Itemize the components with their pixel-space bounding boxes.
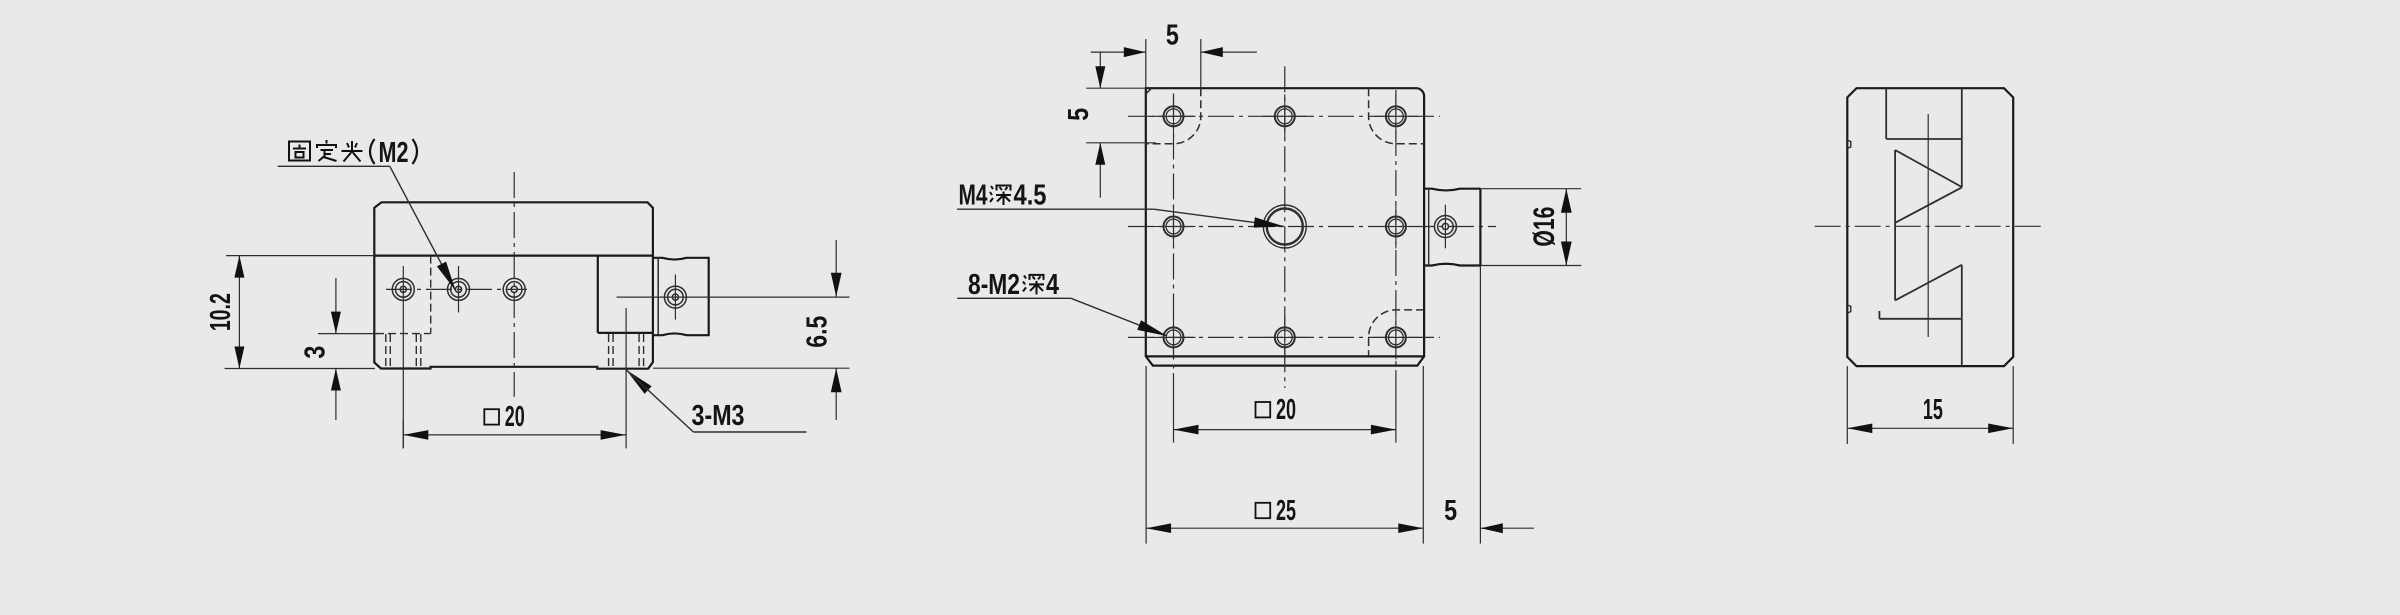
label text 8-M2深4 [968,268,1059,301]
knob collar line [657,258,659,335]
hole 1 vertical crosshair / extension line [402,266,404,448]
svg-text:20: 20 [1276,392,1296,425]
label 8-M2深4 underline [957,297,1071,299]
knob tab set screw hole [1434,216,1456,238]
right bearing block left edge [597,256,599,333]
dim 15 left extension line [1846,366,1848,444]
dim 15 line [1847,424,2013,434]
side view top slot right edge [1961,88,1963,187]
svg-text:3-M3: 3-M3 [692,399,745,432]
dim square25 line [1146,523,1423,533]
row 1 centerline [1128,115,1440,117]
clamp screw hole 3 [503,278,525,300]
dim square20 (top view) left extension [1173,373,1175,443]
label 8-M2深4 leader [1071,298,1167,336]
right bearing block step line [598,332,653,334]
8-M2 hole r1c3 [1374,94,1418,138]
center M4 hole [1263,205,1306,248]
svg-text:3: 3 [298,346,331,359]
clamp screw hole 2 (固定夹 M2) [448,278,470,300]
8-M2 hole r1c2 [1263,94,1307,138]
8-M2 hole r2c3 [1374,205,1418,249]
label text 3-M3 [692,399,745,432]
label leader 3-M3 underline [693,431,806,433]
svg-text:4.5: 4.5 [1014,178,1047,211]
dim 5 bottom-right line [1481,523,1534,533]
label leader 固定夹(M2) diagonal [390,166,456,290]
stage body outline (front view) [374,202,653,368]
8-M2 hole r1c1 [1152,94,1196,138]
dim text 10.2 [204,293,237,331]
svg-text:Ø16: Ø16 [1527,207,1561,247]
side view lower slot bottom lip [1879,311,1961,319]
svg-text:8-M2: 8-M2 [968,268,1020,301]
side view dovetail lower diagonal [1895,265,1962,301]
plate top-left corner chamfer tick [1146,88,1152,94]
column 3 centerline [1395,90,1397,373]
hidden clamp outline (dashed) right edge [430,256,432,334]
dim Ø16 line [1561,189,1572,266]
dim 3 extension line [318,333,378,335]
dim text 5 top [1166,18,1179,51]
hidden clamp arc bottom-right [1369,310,1425,357]
dim 3 line lower [331,369,341,421]
label leader 固定夹(M2) arrowhead [437,262,456,291]
knob tab collar line [1428,189,1430,266]
dim 10.2 bottom extension line [225,368,375,370]
svg-text:5: 5 [1444,494,1457,527]
hidden 3-M3 tapped hole (left) dashed lines [386,334,421,369]
dim square25 left extension line [1145,366,1147,544]
dim text 25 [1276,494,1296,527]
label M4深4.5 leader [1154,209,1284,226]
label leader 固定夹(M2) underline [278,165,390,167]
dim 5 top line right [1201,47,1257,57]
dim 10.2 top extension line [226,255,374,257]
dim square20 (top view) right extension [1395,373,1397,443]
8-M2 hole r3c2 [1263,315,1307,359]
side view lower slot right edge [1961,265,1963,319]
side view body outline [1847,88,2013,366]
svg-text:M4: M4 [959,178,988,211]
dim text 5 bottom-right [1444,494,1457,527]
side view left edge notch lower [1847,305,1851,313]
row 2 centerline [1128,226,1496,228]
dim text 15 [1923,392,1943,425]
dim 5 top: right extension line [1200,39,1202,96]
dim text 20 (top view) [1276,392,1296,425]
dim 3 line upper [331,278,341,334]
side view horizontal centerline [1815,225,2046,227]
svg-text:5: 5 [1166,18,1179,51]
side view top slot bottom edge [1886,138,1962,140]
8-M2 hole r3c1 [1152,315,1196,359]
column 2 centerline [1284,66,1286,388]
dim square20 (top view) line [1174,425,1396,435]
dim square20 left extension line [402,420,404,448]
label leader 3-M3 arrowhead [626,370,652,394]
dim text 5 left [1062,108,1095,121]
dim Ø16 bottom extension line [1480,265,1581,267]
holes horizontal centerline [386,288,527,290]
dim text Ø16 [1527,207,1561,247]
svg-text:4: 4 [1046,268,1059,301]
clamp screw hole 1 [392,278,414,300]
stage table/base split line [374,255,653,257]
label leader 3-M3 diagonal [626,370,693,432]
dim 10.2 line [234,256,244,369]
row 3 centerline [1128,336,1440,338]
8-M2 hole r2c1 [1152,205,1196,249]
dim 5 left: top extension line [1086,87,1146,89]
label M4深4.5 underline [957,208,1154,210]
hidden clamp arc top-right [1369,88,1425,144]
dim square25 right extension line [1422,366,1424,544]
dim square25 square symbol [1256,503,1271,518]
knob tab screw vertical crosshair [1444,205,1446,249]
hidden 3-M3 tapped hole (right) dashed lines [609,334,644,369]
label M4深4.5 arrowhead [1254,217,1284,227]
dim text 3 [298,346,331,359]
plate bottom edge line [1146,355,1424,357]
side view lower slot right vertical to bottom [1961,319,1963,366]
side view dovetail upper diagonal 1 [1895,150,1962,187]
dim 5 left line upper [1095,52,1105,88]
dim 6.5 line upper [831,240,842,297]
side view left edge notch upper [1847,140,1851,148]
dim 5 left: bottom extension line [1086,142,1156,144]
dim square20 (top view) square symbol [1256,402,1271,417]
svg-text:25: 25 [1276,494,1296,527]
dim text 20 [505,400,525,433]
knob axis line [617,296,850,298]
side view screw axis line [1927,114,1929,337]
dim 5 bottom-right extension line (knob end) [1479,266,1481,544]
hidden clamp outline (dashed) bottom edge [376,333,431,335]
label text （M2） [370,136,417,169]
dim text 6.5 [800,316,833,348]
knob screw vertical crosshair [674,275,676,320]
dim 5 left line lower [1095,143,1105,198]
svg-text:M2: M2 [379,136,409,169]
svg-text:10.2: 10.2 [204,293,237,331]
knob tab outline top edge [1424,189,1480,191]
label text M4深4.5 [959,178,1047,211]
hidden clamp arc top-left [1146,88,1201,144]
dim Ø16 top extension line [1480,188,1581,190]
dim 15 right extension line [2012,366,2014,444]
dim 6.5 line lower [831,368,842,420]
knob tab right edge [1479,189,1481,266]
knob tab outline bottom edge [1424,264,1480,266]
top-view plate outline [1146,88,1424,365]
dim 5 top line left [1091,47,1146,57]
body vertical centerline [513,172,515,397]
8-M2 hole r3c3 [1374,315,1418,359]
dim 5 top: left extension line [1145,39,1147,88]
svg-text:15: 15 [1923,392,1943,425]
side view top slot left edge [1885,88,1887,139]
knob set screw hole [664,286,686,308]
label 8-M2深4 arrowhead [1137,320,1167,336]
svg-text:20: 20 [505,400,525,433]
label text 固定夹 [289,140,363,162]
column 1 centerline [1173,94,1175,374]
hole 2 vertical crosshair [458,266,460,313]
svg-text:5: 5 [1062,108,1095,121]
side view dovetail left vertical [1894,150,1896,300]
dim square20 square symbol [484,409,499,424]
dim square20 line [403,430,625,440]
side view dovetail upper diagonal 2 [1895,187,1962,222]
svg-text:6.5: 6.5 [800,316,833,348]
dim square20 right extension line [625,308,627,448]
adjustment knob outline [653,258,709,335]
dim 6.5 bottom extension line [653,367,850,369]
